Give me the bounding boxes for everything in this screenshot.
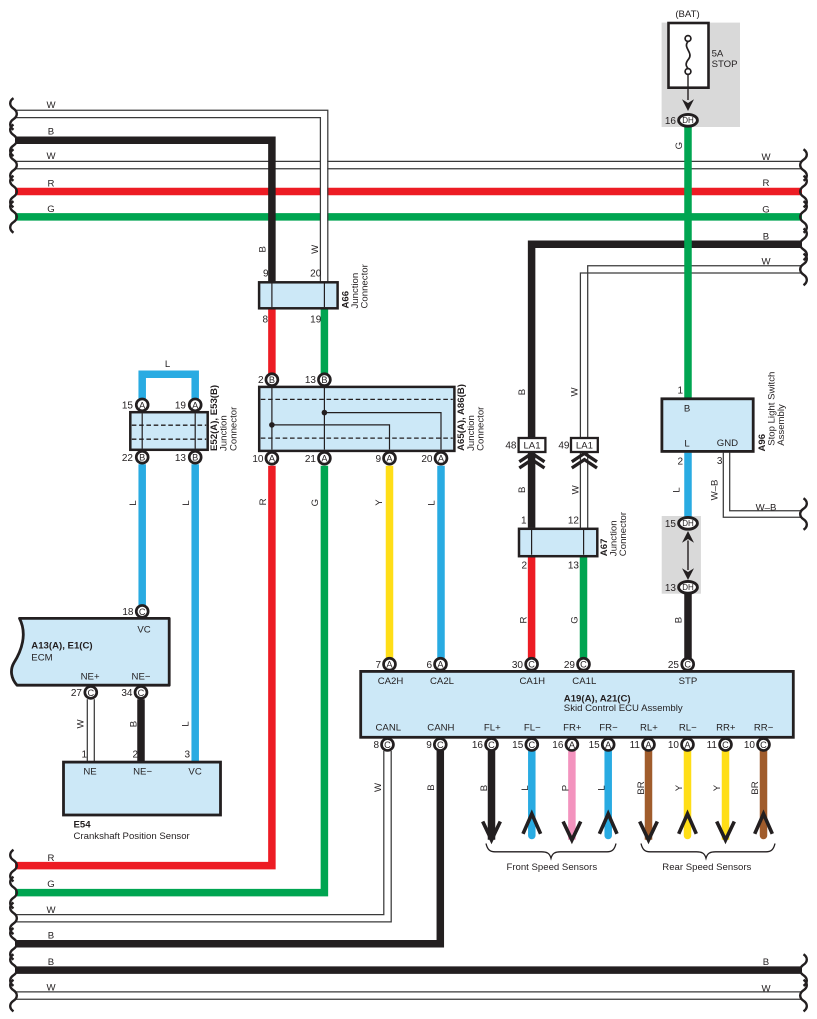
svg-text:L: L xyxy=(128,500,139,506)
wire BR ECU pin 10 RR- with up arrow xyxy=(760,751,768,836)
svg-text:CA2H: CA2H xyxy=(378,676,404,687)
svg-text:L: L xyxy=(180,721,191,727)
svg-text:NE−: NE− xyxy=(132,671,151,682)
svg-text:A: A xyxy=(438,454,445,464)
svg-text:8: 8 xyxy=(373,740,379,751)
svg-text:A: A xyxy=(569,740,576,750)
svg-text:2: 2 xyxy=(521,560,527,571)
svg-text:FL+: FL+ xyxy=(484,723,501,734)
wire R A66 pin 8 to A65 pin 2 xyxy=(268,307,276,375)
stop light switch assembly A96 xyxy=(662,399,753,452)
break symbols right edge xyxy=(800,149,807,181)
svg-text:CA2L: CA2L xyxy=(430,676,455,687)
svg-text:A: A xyxy=(605,740,612,750)
svg-text:DH: DH xyxy=(682,583,694,592)
svg-text:48: 48 xyxy=(505,440,517,451)
wire W bus (bottom, full width) xyxy=(15,991,802,993)
svg-text:A: A xyxy=(386,660,393,670)
svg-text:3: 3 xyxy=(184,750,190,761)
wire B LA1 48 to A67 pin 1 xyxy=(528,452,536,528)
shield connector 49 LA1 xyxy=(571,438,598,452)
svg-text:A: A xyxy=(192,400,199,410)
svg-text:Assembly: Assembly xyxy=(776,404,787,446)
wire P ECU pin 16 FR+ with down arrow xyxy=(568,751,576,840)
node junction dot A65 right xyxy=(322,410,328,416)
svg-text:A: A xyxy=(321,454,328,464)
svg-text:C: C xyxy=(528,740,535,750)
wire Y ECU pin 10 RL- with up arrow xyxy=(684,751,692,836)
wire L A65 pin 20 to ECU pin 6 CA2L xyxy=(437,466,445,659)
wire Y A65 pin 9 to ECU pin 7 CA2H xyxy=(386,466,394,659)
svg-text:1: 1 xyxy=(81,750,87,761)
wire W-B A96 pin 3 GND to right break xyxy=(727,453,803,514)
svg-text:C: C xyxy=(528,660,535,670)
svg-text:13: 13 xyxy=(175,453,187,464)
svg-text:6: 6 xyxy=(426,660,432,671)
wire B 13 DH to ECU pin 25 STP xyxy=(684,594,692,659)
svg-text:20: 20 xyxy=(310,269,322,280)
svg-text:L: L xyxy=(181,500,192,506)
svg-text:B: B xyxy=(48,931,54,942)
svg-text:A: A xyxy=(269,454,276,464)
svg-text:Connector: Connector xyxy=(618,511,629,556)
break symbols left edge top xyxy=(10,98,17,130)
wire B ECM pin 34 to E54 pin 2 NE- xyxy=(137,699,145,761)
break symbols left edge bottom xyxy=(10,850,17,882)
svg-text:B: B xyxy=(139,453,145,463)
svg-text:NE: NE xyxy=(83,766,96,777)
wire L E52 pin 13 to E54 pin 3 VC xyxy=(191,464,199,761)
wire B bus (bottom, full width) xyxy=(15,966,802,974)
svg-text:W: W xyxy=(46,151,56,162)
svg-text:B: B xyxy=(684,403,690,414)
wire B bus (bottom) from ECU pin 9 CANH xyxy=(15,751,440,944)
wire B bus (right) to LA1 48 xyxy=(532,244,802,437)
wire G A66 pin 19 to A65 pin 13 xyxy=(321,307,329,375)
node junction dot A65 left xyxy=(269,422,275,428)
svg-text:FL−: FL− xyxy=(524,723,541,734)
svg-text:R: R xyxy=(518,616,529,623)
svg-text:DH: DH xyxy=(682,519,694,528)
svg-text:10: 10 xyxy=(252,454,264,465)
svg-text:B: B xyxy=(517,487,528,493)
svg-text:9: 9 xyxy=(375,454,381,465)
wire fuse to 16 DH with arrow xyxy=(687,75,689,100)
svg-text:B: B xyxy=(479,785,490,791)
svg-text:B: B xyxy=(517,389,528,395)
svg-text:29: 29 xyxy=(564,660,576,671)
svg-text:7: 7 xyxy=(375,660,381,671)
svg-text:B: B xyxy=(763,232,769,243)
svg-text:C: C xyxy=(139,607,146,617)
svg-text:B: B xyxy=(257,246,268,252)
svg-text:W: W xyxy=(761,257,771,268)
svg-text:Connector: Connector xyxy=(228,406,239,451)
svg-text:B: B xyxy=(673,617,684,623)
svg-text:W: W xyxy=(569,387,580,397)
svg-text:G: G xyxy=(47,204,54,215)
wire W ECM pin 27 to E54 pin 1 NE xyxy=(88,699,94,761)
svg-text:VC: VC xyxy=(137,625,150,636)
svg-text:G: G xyxy=(674,142,685,149)
svg-text:B: B xyxy=(763,957,769,968)
svg-text:FR+: FR+ xyxy=(563,723,582,734)
svg-text:C: C xyxy=(488,740,495,750)
svg-text:RR−: RR− xyxy=(754,723,774,734)
svg-text:G: G xyxy=(570,616,581,623)
wire Y ECU pin 11 RR+ with down arrow xyxy=(722,751,730,840)
svg-text:CA1L: CA1L xyxy=(572,676,597,687)
svg-text:34: 34 xyxy=(121,688,133,699)
svg-text:1: 1 xyxy=(677,386,683,397)
svg-text:L: L xyxy=(597,785,608,791)
wire L bridge over E52 xyxy=(142,374,195,399)
svg-text:FR−: FR− xyxy=(599,723,618,734)
wire B ECU pin 16 FL+ with down arrow xyxy=(488,751,496,840)
svg-text:RR+: RR+ xyxy=(716,723,736,734)
svg-text:12: 12 xyxy=(568,516,580,527)
shield chevrons below 48 LA1 xyxy=(519,453,544,468)
svg-text:(BAT): (BAT) xyxy=(675,9,699,20)
wire R bus (upper, full width) xyxy=(15,188,802,196)
svg-text:15: 15 xyxy=(122,400,134,411)
svg-text:9: 9 xyxy=(263,269,269,280)
svg-text:E54: E54 xyxy=(74,819,92,830)
svg-text:BR: BR xyxy=(636,781,647,794)
svg-text:C: C xyxy=(87,688,94,698)
svg-text:8: 8 xyxy=(262,315,268,326)
svg-text:C: C xyxy=(437,740,444,750)
svg-text:DH: DH xyxy=(682,116,694,125)
svg-text:W: W xyxy=(46,983,56,994)
svg-text:Skid Control ECU Assembly: Skid Control ECU Assembly xyxy=(564,703,683,714)
arrow down into 13 DH xyxy=(682,568,694,580)
svg-text:NE+: NE+ xyxy=(81,671,100,682)
svg-text:LA1: LA1 xyxy=(523,440,540,451)
junction connector A67 xyxy=(519,529,597,556)
svg-text:G: G xyxy=(310,499,321,506)
svg-text:A: A xyxy=(386,454,393,464)
svg-text:13: 13 xyxy=(665,583,677,594)
brace rear speed sensors xyxy=(641,844,775,859)
wire G bus (upper, full width) xyxy=(15,213,802,221)
svg-text:21: 21 xyxy=(305,454,317,465)
svg-text:C: C xyxy=(760,740,767,750)
svg-text:P: P xyxy=(560,785,571,791)
ECM block A13(A), E1(C) xyxy=(11,618,169,685)
svg-text:2: 2 xyxy=(258,375,264,386)
svg-text:16: 16 xyxy=(552,740,564,751)
svg-text:Connector: Connector xyxy=(476,406,487,451)
svg-text:C: C xyxy=(684,660,691,670)
svg-text:19: 19 xyxy=(310,315,322,326)
svg-text:A13(A), E1(C): A13(A), E1(C) xyxy=(31,641,92,652)
A65 internal link pin 13 to pins 21 and 20 xyxy=(324,388,441,450)
svg-text:L: L xyxy=(520,785,531,791)
svg-text:Y: Y xyxy=(712,784,723,791)
svg-text:G: G xyxy=(47,879,54,890)
svg-text:2: 2 xyxy=(677,457,683,468)
arrow up into 15 DH xyxy=(682,531,694,543)
svg-text:20: 20 xyxy=(421,454,433,465)
wire L ECU pin 15 FL- with up arrow xyxy=(528,751,536,836)
svg-text:13: 13 xyxy=(305,375,317,386)
junction connector A65(A), A86(B) xyxy=(259,387,454,451)
svg-text:W: W xyxy=(310,244,321,254)
brace front speed sensors xyxy=(486,844,616,859)
wire B to A66 pin 9 xyxy=(15,140,272,281)
wire G bus (bottom) from A65 pin 21 xyxy=(15,466,324,893)
wire R A67 pin 2 to ECU pin 30 CA1H xyxy=(528,557,536,659)
svg-text:R: R xyxy=(763,178,770,189)
gray harness background for fuse block xyxy=(662,23,740,127)
svg-text:VC: VC xyxy=(188,766,201,777)
junction connector A66 xyxy=(259,282,338,308)
svg-text:11: 11 xyxy=(707,740,718,751)
svg-text:STP: STP xyxy=(679,676,698,687)
svg-text:19: 19 xyxy=(175,400,187,411)
svg-text:B: B xyxy=(192,453,198,463)
svg-text:GND: GND xyxy=(717,438,738,449)
svg-text:STOP: STOP xyxy=(712,59,738,70)
svg-text:10: 10 xyxy=(744,740,756,751)
svg-text:W: W xyxy=(46,100,56,111)
svg-text:CANL: CANL xyxy=(376,723,402,734)
svg-text:1: 1 xyxy=(521,516,527,527)
svg-text:W: W xyxy=(46,905,56,916)
svg-text:A: A xyxy=(684,740,691,750)
svg-text:W: W xyxy=(76,719,87,729)
wire W bus (right) to LA1 49 xyxy=(584,269,802,437)
wire L A96 pin 2 to 15 DH xyxy=(684,453,692,517)
svg-text:5A: 5A xyxy=(712,48,724,59)
wire W to A66 pin 20 xyxy=(15,114,324,282)
wire L E52 pin 22 to ECM pin 18 xyxy=(138,464,146,606)
skid control ECU assembly A19(A), A21(C) xyxy=(361,671,794,737)
svg-text:W: W xyxy=(761,152,771,163)
svg-text:R: R xyxy=(48,853,55,864)
svg-text:16: 16 xyxy=(665,116,677,127)
svg-text:15: 15 xyxy=(512,740,524,751)
svg-text:L: L xyxy=(165,359,171,370)
wire G A67 pin 13 to ECU pin 29 CA1L xyxy=(580,557,588,659)
svg-text:49: 49 xyxy=(558,440,570,451)
svg-text:W: W xyxy=(761,984,771,995)
svg-text:W: W xyxy=(570,484,581,494)
junction connector E52(A), E53(B) xyxy=(130,412,207,450)
gray harness background between DH connectors xyxy=(662,516,701,594)
svg-text:22: 22 xyxy=(122,453,134,464)
wire W LA1 49 to A67 pin 12 xyxy=(581,452,587,528)
svg-text:Y: Y xyxy=(674,784,685,791)
crankshaft position sensor E54 xyxy=(64,762,221,815)
svg-text:3: 3 xyxy=(717,456,723,467)
fuse 5A STOP xyxy=(669,23,709,88)
wire G fuse 16 DH to A96 pin 1 xyxy=(684,127,692,398)
svg-text:C: C xyxy=(384,740,391,750)
svg-text:25: 25 xyxy=(668,660,680,671)
svg-text:11: 11 xyxy=(630,740,641,751)
svg-text:L: L xyxy=(672,487,683,493)
svg-text:15: 15 xyxy=(665,519,677,530)
svg-text:Front Speed Sensors: Front Speed Sensors xyxy=(506,862,597,873)
svg-text:NE−: NE− xyxy=(133,766,152,777)
svg-text:C: C xyxy=(580,660,587,670)
svg-text:16: 16 xyxy=(472,740,484,751)
wire L ECU pin 15 FR- with up arrow xyxy=(604,751,612,836)
svg-text:9: 9 xyxy=(426,740,432,751)
svg-text:Crankshaft Position Sensor: Crankshaft Position Sensor xyxy=(74,831,191,842)
svg-text:LA1: LA1 xyxy=(576,440,593,451)
svg-text:G: G xyxy=(762,205,769,216)
svg-text:B: B xyxy=(269,375,275,385)
svg-text:B: B xyxy=(48,126,54,137)
wire W bus (bottom) from ECU pin 8 CANL xyxy=(15,751,388,919)
svg-text:R: R xyxy=(48,178,55,189)
svg-text:B: B xyxy=(426,784,437,790)
svg-text:13: 13 xyxy=(568,560,580,571)
svg-text:C: C xyxy=(722,740,729,750)
svg-text:A: A xyxy=(139,400,146,410)
svg-text:Y: Y xyxy=(374,499,385,506)
svg-text:BR: BR xyxy=(750,781,761,794)
svg-text:CA1H: CA1H xyxy=(520,676,546,687)
svg-text:RL−: RL− xyxy=(679,723,697,734)
svg-text:CANH: CANH xyxy=(427,723,454,734)
svg-text:Rear Speed Sensors: Rear Speed Sensors xyxy=(662,862,751,873)
svg-text:R: R xyxy=(258,498,269,505)
svg-text:C: C xyxy=(138,688,145,698)
svg-text:B: B xyxy=(129,721,140,727)
wire between DH connectors xyxy=(687,541,689,571)
svg-text:27: 27 xyxy=(71,688,83,699)
svg-text:A: A xyxy=(645,740,652,750)
svg-text:W–B: W–B xyxy=(710,480,721,501)
svg-text:L: L xyxy=(684,439,690,450)
svg-text:Connector: Connector xyxy=(360,263,371,308)
svg-text:L: L xyxy=(427,500,438,506)
wire BR ECU pin 11 RL+ with down arrow xyxy=(645,751,653,840)
svg-text:RL+: RL+ xyxy=(640,723,658,734)
svg-text:A: A xyxy=(437,660,444,670)
wire R bus (bottom) from A65 pin 10 xyxy=(15,466,272,866)
svg-text:W: W xyxy=(373,782,384,792)
svg-text:ECM: ECM xyxy=(31,652,52,663)
svg-text:30: 30 xyxy=(512,660,524,671)
svg-text:B: B xyxy=(321,375,327,385)
svg-text:B: B xyxy=(48,957,54,968)
shield chevrons below 49 LA1 xyxy=(572,453,597,468)
svg-text:15: 15 xyxy=(589,740,601,751)
svg-text:10: 10 xyxy=(668,740,680,751)
A65 internal link pin 2 to pins 10 and 9 xyxy=(272,388,390,450)
svg-text:2: 2 xyxy=(132,750,138,761)
wire W bus (upper, full width) xyxy=(15,160,802,162)
svg-text:18: 18 xyxy=(122,607,134,618)
shield connector 48 LA1 xyxy=(519,438,546,452)
